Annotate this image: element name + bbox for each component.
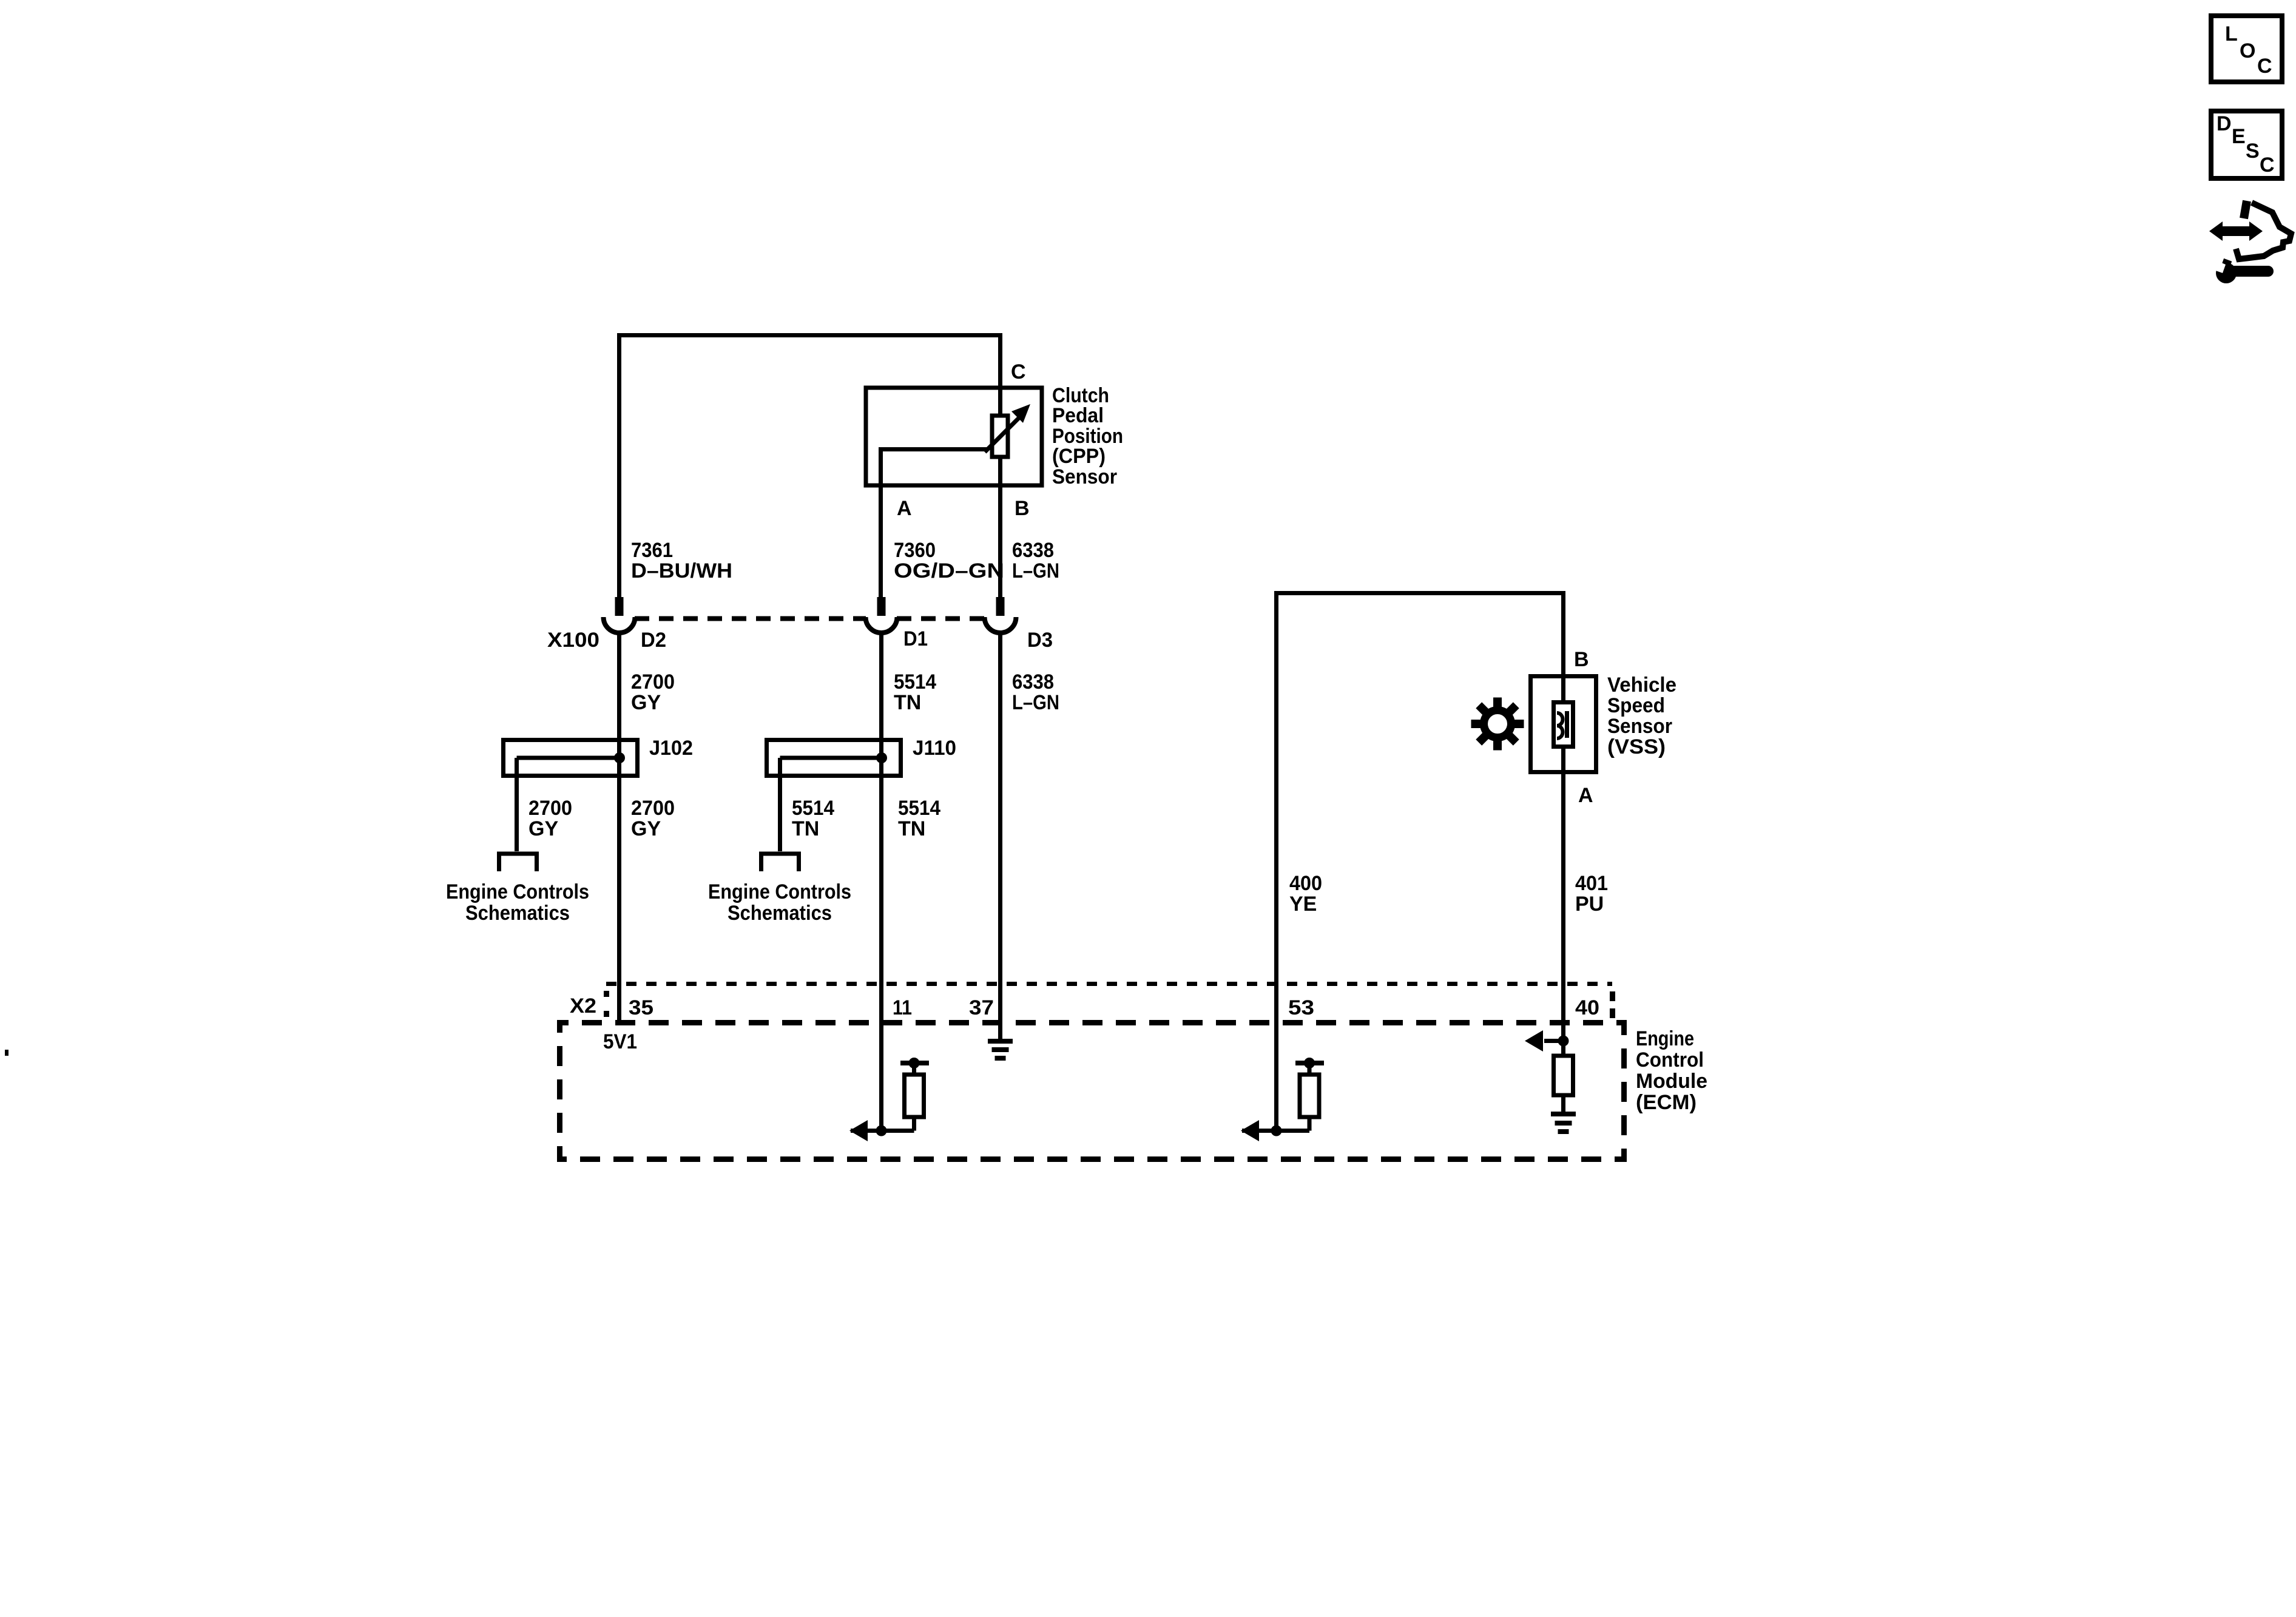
pin 11 internal pull-up resistor top bar: [900, 1061, 929, 1065]
svg-text:401: 401: [1575, 872, 1608, 895]
potentiometer wiper arrow: [985, 413, 1024, 452]
svg-text:37: 37: [969, 996, 994, 1019]
svg-text:6338: 6338: [1012, 539, 1054, 562]
svg-text:GY: GY: [631, 817, 661, 840]
svg-text:40: 40: [1575, 996, 1599, 1019]
ground symbol at pin 37: [988, 1039, 1013, 1044]
svg-text:D2: D2: [641, 629, 666, 652]
X2 row left dotted end: [604, 991, 609, 1017]
off-page connector bracket (right): [761, 854, 799, 871]
svg-text:X100: X100: [547, 629, 599, 652]
svg-text:X2: X2: [570, 994, 596, 1018]
svg-text:5514: 5514: [898, 797, 940, 820]
svg-text:35: 35: [629, 996, 653, 1019]
svg-text:OG/D–GN: OG/D–GN: [894, 559, 1004, 582]
branch wire 5514 TN to engine controls: [778, 758, 782, 851]
svg-text:5514: 5514: [792, 797, 834, 820]
svg-text:Engine Controls: Engine Controls: [708, 880, 851, 903]
VSS circuit top loop wire (400 YE / 401 PU): [1277, 593, 1564, 1131]
LOC reference box: [2211, 16, 2282, 82]
connector X100 dashed harness line: [635, 616, 866, 621]
svg-text:TN: TN: [894, 691, 921, 714]
splice J110 junction dot: [876, 752, 887, 763]
svg-text:6338: 6338: [1012, 670, 1054, 694]
svg-text:Engine Controls: Engine Controls: [446, 880, 589, 903]
VSS pickup coil element: [1554, 703, 1573, 747]
diagnostic hand icon outline: [2244, 201, 2247, 218]
VSS magnet bar: [1565, 711, 1569, 738]
svg-text:2700: 2700: [631, 670, 675, 694]
svg-text:A: A: [897, 497, 912, 520]
svg-text:D–BU/WH: D–BU/WH: [631, 559, 732, 582]
off-page connector bracket (left): [499, 854, 537, 871]
svg-text:J110: J110: [913, 737, 956, 760]
svg-text:L: L: [2225, 22, 2238, 46]
clutch pedal position sensor box: [866, 388, 1042, 485]
pin 53 junction dot: [1271, 1126, 1282, 1136]
gear icon: [1471, 698, 1524, 751]
svg-text:Control: Control: [1636, 1048, 1704, 1072]
splice J102 box: [504, 740, 638, 776]
svg-text:YE: YE: [1289, 893, 1317, 916]
svg-text:D1: D1: [903, 627, 928, 650]
VSS coil squiggle: [1557, 713, 1563, 738]
svg-text:53: 53: [1288, 996, 1314, 1019]
svg-text:Schematics: Schematics: [465, 902, 570, 925]
pin 11 signal line with arrow: [851, 1129, 914, 1133]
svg-text:(ECM): (ECM): [1636, 1091, 1697, 1114]
svg-text:B: B: [1574, 648, 1589, 671]
svg-text:PU: PU: [1575, 893, 1604, 916]
svg-text:5V1: 5V1: [603, 1030, 637, 1053]
pin 53 resistor top node dot: [1304, 1058, 1315, 1068]
svg-text:Pedal: Pedal: [1052, 404, 1104, 427]
svg-text:L–GN: L–GN: [1012, 559, 1059, 582]
connector pin D3: [996, 597, 1005, 616]
connector pin D2 (male pin + female cup): [615, 597, 624, 616]
page edge speck: [5, 1050, 8, 1056]
pin 40 load resistor: [1561, 1041, 1565, 1056]
svg-text:L–GN: L–GN: [1012, 691, 1059, 714]
svg-text:Speed: Speed: [1607, 694, 1665, 717]
pin 53 internal pull-up resistor top bar: [1295, 1061, 1324, 1065]
wire 6338 L-GN lower segment: [998, 633, 1002, 1039]
branch wire 2700 GY to engine controls: [515, 758, 519, 851]
pin 53 resistor: [1308, 1063, 1312, 1075]
svg-text:11: 11: [893, 996, 912, 1019]
svg-text:2700: 2700: [631, 797, 675, 820]
splice J102 junction dot: [614, 752, 625, 763]
wiper tap wire inside CPP box: [879, 447, 987, 451]
svg-text:GY: GY: [528, 817, 558, 840]
diagnostic hand icon double arrow: [2221, 226, 2250, 236]
wire 5514 TN main segment: [879, 633, 883, 1131]
vehicle speed sensor box: [1531, 677, 1596, 772]
svg-text:Module: Module: [1636, 1070, 1707, 1093]
svg-text:7361: 7361: [631, 539, 673, 562]
pin 53 signal line with arrow: [1242, 1129, 1309, 1133]
svg-text:Vehicle: Vehicle: [1607, 673, 1676, 697]
wire 2700 GY main segment: [617, 633, 621, 1023]
wrench icon: [2216, 263, 2237, 283]
svg-text:Engine: Engine: [1636, 1027, 1694, 1050]
svg-text:GY: GY: [631, 691, 661, 714]
connector pin D1: [877, 597, 886, 616]
svg-text:Sensor: Sensor: [1607, 715, 1672, 738]
svg-text:E: E: [2232, 125, 2246, 148]
pin 11 resistor top node dot: [909, 1058, 920, 1068]
svg-text:400: 400: [1289, 872, 1322, 895]
svg-text:2700: 2700: [528, 797, 572, 820]
svg-text:(VSS): (VSS): [1607, 735, 1666, 758]
svg-text:5514: 5514: [894, 670, 936, 694]
svg-text:A: A: [1578, 784, 1593, 807]
ECM connector X2 dotted line: [606, 982, 1612, 986]
splice J102 tap line: [517, 756, 620, 760]
X2 row right dotted end: [1610, 991, 1615, 1018]
svg-text:Schematics: Schematics: [728, 902, 832, 925]
wire A from CPP sensor: [879, 449, 883, 597]
pin 11 resistor: [912, 1063, 916, 1075]
svg-text:D: D: [2217, 112, 2232, 135]
svg-text:TN: TN: [898, 817, 925, 840]
svg-text:Sensor: Sensor: [1052, 465, 1117, 488]
svg-text:B: B: [1015, 497, 1030, 520]
svg-text:7360: 7360: [894, 539, 936, 562]
pin 40 junction dot: [1558, 1036, 1569, 1047]
pin 11 junction dot: [876, 1126, 887, 1136]
DESC reference box: [2211, 111, 2282, 178]
ECM dashed box: [560, 1023, 1624, 1160]
svg-text:(CPP): (CPP): [1052, 445, 1106, 468]
ground symbol at pin 40 resistor: [1551, 1112, 1576, 1116]
svg-text:C: C: [1011, 360, 1026, 383]
svg-text:TN: TN: [792, 817, 819, 840]
potentiometer element in CPP sensor: [992, 416, 1008, 457]
splice J110 box: [767, 740, 901, 776]
svg-text:D3: D3: [1027, 629, 1053, 652]
svg-text:C: C: [2260, 154, 2275, 177]
svg-text:S: S: [2246, 140, 2260, 163]
svg-text:O: O: [2240, 39, 2255, 62]
svg-text:J102: J102: [649, 737, 693, 760]
splice J110 tap line: [780, 756, 882, 760]
svg-text:C: C: [2257, 55, 2272, 78]
wire 7361 D-BU/WH: left vertical + top horizontal + C drop: [620, 336, 1001, 598]
pin 40 signal arrow: [1544, 1039, 1564, 1043]
